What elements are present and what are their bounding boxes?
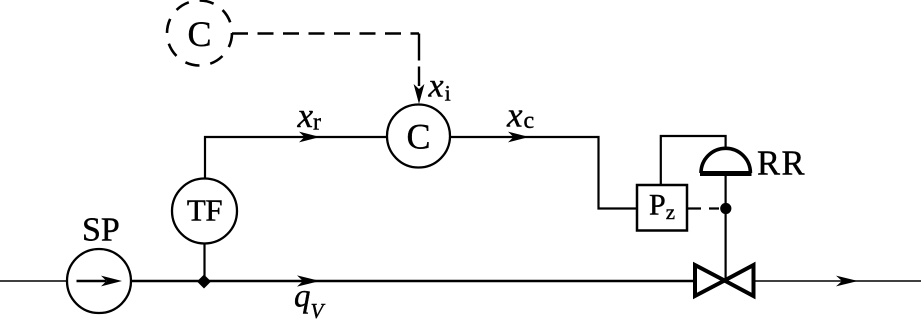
wire: dome stem to valve xyxy=(724,176,726,281)
arrowhead on x_r line xyxy=(299,132,320,143)
svg-text:C: C xyxy=(406,117,430,157)
arrowhead on flow line xyxy=(297,275,320,286)
svg-text:C: C xyxy=(187,14,211,54)
svg-text:SP: SP xyxy=(82,212,120,249)
svg-text:RR: RR xyxy=(757,145,806,183)
wire: TF to main line node xyxy=(203,244,205,277)
arrowhead on x_c line xyxy=(508,132,529,143)
wire: dashed Pz to stem xyxy=(688,207,720,209)
transducer TF (circle) xyxy=(172,179,237,244)
wire: inlet line left edge to SP xyxy=(0,280,67,282)
wire: main flow line SP to valve xyxy=(131,280,693,283)
controller C1 (dashed circle) xyxy=(167,1,232,66)
actuator RR (dome) xyxy=(700,148,752,173)
op point: wire corner above TF xyxy=(205,137,387,180)
arrowhead into C2 top xyxy=(414,84,425,104)
positioner Pz (box) xyxy=(637,185,687,231)
valve (bowtie) xyxy=(695,265,754,296)
wire: dashed vertical down to C2 xyxy=(418,34,420,87)
controller C2 (circle) xyxy=(387,105,450,168)
wire: Pz top to actuator dome xyxy=(661,136,726,185)
junction dot xyxy=(720,203,731,214)
wire: outlet line valve to right edge xyxy=(755,280,921,282)
sensor SP (circle with arrow) xyxy=(67,249,131,313)
arrowhead on outlet xyxy=(836,276,858,287)
junction node (diamond) xyxy=(197,275,211,289)
svg-text:TF: TF xyxy=(187,193,222,228)
wire: C2 to corner, down to Pz xyxy=(450,137,636,209)
wire: dashed line C1 to corner xyxy=(232,32,419,34)
